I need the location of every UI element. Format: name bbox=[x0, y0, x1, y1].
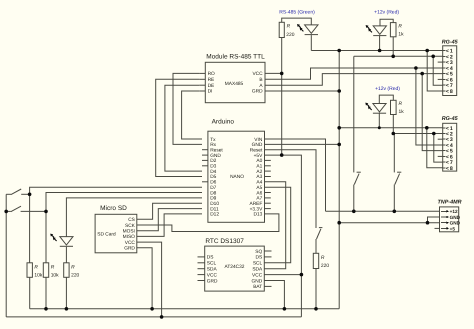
svg-text:RTC DS1307: RTC DS1307 bbox=[205, 238, 244, 245]
label R2 value bbox=[398, 23, 404, 37]
wire GND bus3 bbox=[339, 127, 443, 129]
node reset R220 on rail bbox=[314, 307, 318, 311]
wire MAX485 GRD to GND backbone bbox=[265, 90, 339, 92]
svg-text:VCC: VCC bbox=[207, 272, 218, 278]
wire LED3 to R220 bbox=[65, 247, 67, 263]
svg-text:A6: A6 bbox=[256, 190, 262, 196]
svg-text:SDA: SDA bbox=[207, 267, 218, 273]
svg-text:MISO: MISO bbox=[123, 234, 136, 240]
wire GND bus1 top bbox=[311, 50, 442, 52]
node RTC GND on rail bbox=[283, 307, 287, 311]
node SD VCC on +5V bus bbox=[160, 315, 164, 319]
svg-text:<: < bbox=[446, 166, 449, 172]
wire +12 rail to TNP bbox=[326, 210, 440, 212]
wire TNP +5 stub bbox=[435, 227, 440, 229]
svg-text:D4: D4 bbox=[210, 169, 216, 175]
switch SW4 right bbox=[354, 172, 361, 184]
LED D2 red top bbox=[366, 25, 387, 36]
svg-text:D13: D13 bbox=[253, 212, 262, 218]
wire SD GRD to ground rail bbox=[137, 248, 152, 309]
wire reset R220 bottom bbox=[315, 269, 317, 309]
svg-text:BAT: BAT bbox=[253, 284, 262, 290]
wire RG45 pin4 riser bbox=[416, 68, 443, 145]
svg-text:Rx: Rx bbox=[210, 142, 216, 148]
connector J3 TNP-4MR box bbox=[440, 207, 459, 232]
svg-text:D3: D3 bbox=[210, 164, 216, 170]
wire LED D3 column to D9 bbox=[66, 198, 202, 237]
svg-text:A1: A1 bbox=[256, 164, 262, 170]
wire SD MISO to D12 bbox=[137, 214, 202, 237]
svg-text:VCC: VCC bbox=[125, 240, 136, 246]
svg-text:Module RS-485 TTL: Module RS-485 TTL bbox=[206, 54, 265, 61]
svg-text:DS: DS bbox=[207, 255, 214, 261]
label Arduino pin names bbox=[210, 137, 263, 218]
wire switch SW1 to D7 bbox=[30, 187, 202, 263]
label R7 value bbox=[321, 255, 329, 269]
svg-text:GND: GND bbox=[450, 221, 461, 226]
svg-text:SDA: SDA bbox=[252, 267, 263, 273]
wire SD MOSI to D11 bbox=[137, 209, 202, 231]
svg-text:8: 8 bbox=[450, 89, 453, 95]
wire +5V riser to Arduino +5V bbox=[265, 155, 302, 317]
svg-text:RG-45: RG-45 bbox=[442, 116, 459, 122]
svg-text:MAX485: MAX485 bbox=[225, 81, 244, 87]
svg-text:Tx: Tx bbox=[210, 137, 216, 143]
wire ground rail bbox=[30, 308, 340, 310]
node R1k2 on bus4 bbox=[392, 132, 396, 136]
node Arduino GND on backbone bbox=[337, 143, 341, 147]
wire RTC GND to ground rail bbox=[264, 281, 284, 309]
wire GND to TNP bbox=[339, 222, 439, 224]
module U3 Micro SD box bbox=[95, 214, 137, 253]
svg-text:SCL: SCL bbox=[253, 261, 263, 267]
wire A5 to RTC SCL bbox=[264, 187, 290, 263]
wire R10k2 bottom bbox=[45, 277, 47, 309]
svg-text:A0: A0 bbox=[256, 158, 262, 164]
svg-text:+3.3V: +3.3V bbox=[250, 206, 263, 212]
label R4 value bbox=[34, 265, 42, 279]
LED D4 left bbox=[50, 234, 73, 247]
switch SW5 right bbox=[395, 172, 402, 184]
wire Arduino VIN riser bbox=[265, 139, 326, 211]
svg-text:+12v (Red): +12v (Red) bbox=[375, 86, 400, 92]
wire MAX485 VCC riser bbox=[281, 38, 283, 156]
svg-text:R: R bbox=[321, 255, 325, 261]
svg-text:TNP-4MR: TNP-4MR bbox=[438, 200, 462, 206]
wire red LED2 cathode down bbox=[378, 113, 380, 128]
node TNP GND jog bbox=[426, 221, 430, 225]
svg-text:DE: DE bbox=[208, 83, 215, 89]
wire reset switch to R220 bbox=[315, 239, 317, 253]
resistor R4 10k bbox=[27, 263, 32, 278]
svg-text:GRD: GRD bbox=[124, 246, 135, 252]
wire GND backbone vertical bbox=[338, 51, 340, 309]
connector J2 pins bbox=[443, 126, 453, 172]
svg-text:220: 220 bbox=[286, 32, 294, 38]
svg-text:D11: D11 bbox=[210, 206, 219, 212]
node R220 on rail bbox=[65, 307, 69, 311]
svg-text:R: R bbox=[71, 265, 75, 271]
node SW5 on +12 rail bbox=[393, 210, 397, 214]
svg-text:D12: D12 bbox=[210, 212, 219, 218]
label R3 value bbox=[399, 101, 405, 115]
svg-text:1k: 1k bbox=[399, 109, 405, 115]
node TNP GND on backbone bbox=[337, 221, 341, 225]
svg-text:D9: D9 bbox=[210, 196, 216, 202]
svg-text:SD Card: SD Card bbox=[97, 232, 116, 238]
svg-text:GND: GND bbox=[252, 278, 263, 284]
svg-text:RS-485 (Green): RS-485 (Green) bbox=[279, 10, 315, 16]
svg-text:8: 8 bbox=[450, 166, 453, 172]
wire red LED1 cathode down bbox=[379, 35, 381, 50]
svg-text:AT24C32: AT24C32 bbox=[225, 264, 245, 270]
wire green LED cathode down bbox=[310, 35, 312, 50]
svg-text:Reset: Reset bbox=[210, 148, 223, 154]
node GND backbone top bbox=[337, 49, 341, 53]
node MAX485 VCC tap bbox=[280, 72, 284, 76]
svg-text:Arduino: Arduino bbox=[212, 119, 235, 126]
switch SW2 left bottom bbox=[6, 206, 46, 212]
svg-text:+12v (Red): +12v (Red) bbox=[374, 10, 399, 16]
svg-text:A4: A4 bbox=[256, 180, 262, 186]
svg-text:DI: DI bbox=[208, 89, 213, 95]
svg-text:Micro SD: Micro SD bbox=[100, 205, 127, 212]
resistor R5 10k bbox=[43, 263, 48, 278]
wire RG45-2 pin1-pin8 link bbox=[427, 128, 443, 168]
wire TNP GND jog bbox=[428, 217, 440, 223]
node RG45-2 pin2 riser bbox=[432, 132, 436, 136]
svg-text:GND: GND bbox=[450, 215, 461, 220]
svg-text:R: R bbox=[34, 265, 38, 271]
wire R1k1 bottom bbox=[392, 37, 394, 57]
wire RG45-1 pin2-pin7 link bbox=[433, 56, 443, 85]
node MAX485 GRD on backbone bbox=[337, 89, 341, 93]
svg-text:CS: CS bbox=[128, 217, 135, 223]
wire A jog to RG45 pin5 bbox=[265, 74, 443, 86]
module U4 RTC DS1307 box bbox=[198, 246, 272, 291]
svg-text:GRD: GRD bbox=[207, 278, 218, 284]
resistor R2 1k red LED top bbox=[390, 23, 396, 37]
node R1k1 on bus2 bbox=[391, 55, 395, 59]
label R1 value bbox=[286, 24, 294, 38]
svg-text:MOSI: MOSI bbox=[123, 229, 135, 235]
svg-text:DS: DS bbox=[256, 255, 263, 261]
svg-text:R: R bbox=[51, 265, 55, 271]
wire Arduino GND to backbone bbox=[265, 143, 340, 145]
wire B jog to RG45 pin4 bbox=[265, 68, 443, 79]
svg-text:220: 220 bbox=[71, 273, 79, 279]
wire left +5V vertical bbox=[5, 194, 7, 317]
svg-text:GND: GND bbox=[210, 153, 221, 159]
switch SW3 reset bbox=[317, 228, 323, 239]
svg-text:A2: A2 bbox=[256, 169, 262, 175]
wire R1k2 bottom to bus4 bbox=[392, 115, 394, 134]
svg-text:VCC: VCC bbox=[252, 71, 263, 77]
node RG45-1 pin1 riser bbox=[425, 49, 429, 53]
SECTION:DOTS bbox=[4, 49, 435, 319]
connector J1 pins bbox=[443, 49, 453, 96]
node bus3 on backbone bbox=[337, 126, 341, 130]
svg-text:<: < bbox=[446, 89, 449, 95]
svg-text:RO: RO bbox=[208, 71, 215, 77]
node +5V row tap bbox=[280, 153, 284, 157]
node R10k2 on rail bbox=[44, 307, 48, 311]
module U1 MAX485 box bbox=[199, 62, 265, 102]
node RTC VCC on +5V riser bbox=[300, 273, 304, 277]
wire SD CS to D10 bbox=[137, 203, 202, 219]
svg-text:SCK: SCK bbox=[125, 223, 136, 229]
svg-text:VCC: VCC bbox=[252, 272, 263, 278]
wire RE to D5 bbox=[156, 79, 202, 176]
svg-text:SQ: SQ bbox=[255, 249, 262, 255]
svg-text:D7: D7 bbox=[210, 185, 216, 191]
LED D1 green bbox=[297, 24, 318, 35]
svg-text:GRD: GRD bbox=[252, 89, 263, 95]
svg-text:B: B bbox=[259, 77, 262, 83]
wire bottom +5V bus bbox=[6, 316, 301, 318]
wire RG45 pin5 riser bbox=[422, 74, 443, 151]
svg-text:D8: D8 bbox=[210, 190, 216, 196]
svg-text:+12: +12 bbox=[450, 209, 458, 214]
node SW1 junction bbox=[28, 193, 32, 197]
wire red LED2 bracket bbox=[379, 95, 393, 103]
wire switch SW4 riser bottom bbox=[353, 185, 355, 212]
svg-text:D5: D5 bbox=[210, 174, 216, 180]
svg-text:AREF: AREF bbox=[250, 201, 263, 207]
svg-text:A5: A5 bbox=[256, 185, 262, 191]
wire R220 left bottom bbox=[65, 277, 67, 309]
label MAX485 pin names bbox=[208, 71, 264, 95]
svg-text:RE: RE bbox=[208, 77, 215, 83]
wire Arduino Reset to reset switch bbox=[265, 150, 317, 228]
svg-text:R: R bbox=[398, 23, 402, 29]
svg-text:D10: D10 bbox=[210, 201, 219, 207]
wire DE to D4 bbox=[165, 85, 202, 171]
module U2 Arduino NANO box bbox=[202, 131, 271, 222]
svg-text:A3: A3 bbox=[256, 174, 262, 180]
node red LED1 cathode on bus1 bbox=[378, 49, 382, 53]
wire switch SW5 riser top bbox=[393, 134, 395, 173]
svg-text:10k: 10k bbox=[34, 273, 42, 279]
svg-text:VIN: VIN bbox=[254, 137, 263, 143]
label R6 value bbox=[71, 265, 79, 279]
wire +12 bus4 bbox=[393, 133, 442, 135]
svg-text:SCL: SCL bbox=[207, 261, 217, 267]
wire green LED bracket bbox=[282, 18, 312, 25]
wire switch SW5 riser bottom bbox=[393, 185, 395, 212]
node RG45-1 pin2 riser bbox=[431, 55, 435, 59]
SECTION:PARTS bbox=[6, 22, 459, 291]
wire RG45-2 pin2-pin7 link bbox=[434, 134, 443, 163]
node RG45-2 pin1 riser bbox=[425, 126, 429, 130]
svg-text:220: 220 bbox=[321, 263, 329, 269]
connector J1 RG-45 top box bbox=[438, 46, 457, 96]
wire DI to Tx bbox=[182, 91, 202, 139]
resistor R3 1k red LED bottom bbox=[391, 100, 397, 114]
wire A4 to RTC SDA bbox=[264, 182, 285, 269]
wire switch SW4 riser top bbox=[353, 56, 355, 172]
resistor R1 220 green LED bbox=[279, 22, 284, 37]
wire R10k1 bottom bbox=[29, 277, 31, 309]
svg-text:GND: GND bbox=[252, 142, 263, 148]
resistor R7 220 reset bbox=[313, 253, 318, 268]
node left bus SW2 tap bbox=[4, 210, 8, 214]
wire RO to Rx bbox=[173, 73, 202, 144]
resistor R6 220 bbox=[64, 263, 69, 278]
node red LED2 cathode on bus3 bbox=[378, 126, 381, 129]
LED D3 red bottom bbox=[365, 103, 386, 114]
wire RTC VCC to +5V backbone bbox=[264, 274, 301, 276]
label Micro SD pin names bbox=[97, 217, 135, 252]
wire switch SW2 to D8 bbox=[46, 193, 202, 263]
connector J3 pins bbox=[441, 209, 461, 231]
node pin4 riser bbox=[414, 66, 418, 70]
wire D13 to SD SCK bbox=[137, 214, 279, 232]
svg-text:R: R bbox=[399, 101, 403, 107]
svg-text:NANO: NANO bbox=[230, 174, 244, 180]
svg-text:Reset: Reset bbox=[250, 148, 263, 154]
node pin5 riser bbox=[420, 72, 424, 76]
wire +12 bus2 bbox=[354, 55, 443, 57]
svg-text:R: R bbox=[287, 24, 291, 30]
wire SD VCC to +5V bus bbox=[137, 242, 162, 317]
node SW2 to R10k2 bbox=[44, 210, 48, 214]
svg-text:D2: D2 bbox=[210, 158, 216, 164]
wire red LED1 bracket bbox=[380, 19, 393, 26]
node SW4 on +12 rail bbox=[352, 210, 356, 214]
svg-text:RG-45: RG-45 bbox=[442, 40, 459, 46]
label R5 value bbox=[51, 265, 59, 279]
node SD GRD on rail bbox=[150, 307, 154, 311]
svg-text:1k: 1k bbox=[398, 31, 404, 37]
wire MAX485 VCC stub to node bbox=[265, 72, 282, 74]
svg-text:+5: +5 bbox=[450, 226, 456, 231]
switch SW1 left top bbox=[6, 189, 29, 195]
svg-text:10k: 10k bbox=[51, 273, 59, 279]
svg-text:D6: D6 bbox=[210, 180, 216, 186]
connector J2 RG-45 bottom box bbox=[438, 123, 457, 171]
label RTC pin names bbox=[207, 249, 263, 290]
svg-text:A7: A7 bbox=[256, 196, 262, 202]
svg-text:+5V: +5V bbox=[254, 153, 263, 159]
wire RG45-1 pin1-pin8 link bbox=[427, 51, 443, 92]
